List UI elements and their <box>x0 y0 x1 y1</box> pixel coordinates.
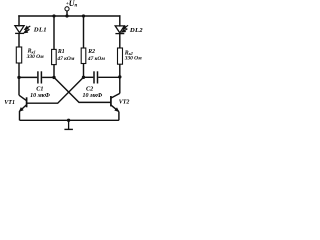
wire +Un terminal lead <box>66 11 68 16</box>
VT2 emitter diagonal <box>111 105 119 111</box>
transistor VT2 <box>111 77 120 120</box>
svg-text:DL1: DL1 <box>33 27 47 34</box>
node R2 on rail <box>82 14 85 17</box>
node C R2/C2 junction <box>82 76 85 79</box>
svg-text:VT2: VT2 <box>119 100 130 106</box>
node B R1/C1 junction <box>52 76 55 79</box>
wire C2 to node D <box>98 76 120 78</box>
wire rail to R1 <box>53 16 55 49</box>
wire DL2 cathode to Rk2 <box>119 34 121 48</box>
transistor VT1 <box>19 77 27 120</box>
wire top rail +U <box>19 15 120 17</box>
wire C1 to node B <box>42 76 54 78</box>
wire DL2 anode from rail <box>119 16 121 26</box>
wire VT1 collector lead <box>18 77 20 95</box>
svg-text:VT1: VT1 <box>4 100 15 106</box>
node +Un junction on rail <box>65 14 68 17</box>
wire node C to C2 <box>84 76 94 78</box>
resistor Rk2 <box>118 48 123 64</box>
resistor R2 <box>81 48 86 64</box>
wire rail to R2 <box>83 16 85 48</box>
wire VT2 emitter lead <box>118 112 120 121</box>
svg-text:10 мкФ: 10 мкФ <box>30 93 50 99</box>
wire Rk2 to node D <box>119 64 121 77</box>
ground <box>64 120 73 129</box>
resistor Rk1 <box>16 47 21 63</box>
wire VT1 emitter lead <box>19 111 21 120</box>
svg-text:R1: R1 <box>57 49 65 55</box>
VT1 base bar <box>26 97 28 107</box>
wire DL1 anode from rail <box>18 16 20 26</box>
wire DL1 cathode to Rk1 <box>18 33 20 47</box>
wire cross-coupling node B to VT2 base <box>54 77 111 102</box>
node R1 on rail <box>52 14 55 17</box>
node A VT1 collector <box>17 76 20 79</box>
node ground junction <box>67 119 70 122</box>
svg-text:DL2: DL2 <box>129 27 143 34</box>
svg-text:C1: C1 <box>36 86 43 93</box>
wire bottom rail <box>20 119 119 121</box>
LED DL2 arrows <box>122 25 128 32</box>
VT1 collector diagonal <box>19 95 26 100</box>
svg-text:330 Ом: 330 Ом <box>26 54 44 60</box>
wire Rk1 to collector node A <box>18 63 20 77</box>
svg-text:C2: C2 <box>86 86 93 93</box>
LED DL1 <box>15 26 24 34</box>
capacitor C2 <box>94 71 98 83</box>
VT1 emitter diagonal <box>20 105 27 111</box>
wire node A to C1 <box>19 76 37 78</box>
wire R1 to node B <box>53 65 55 78</box>
node D VT2 collector <box>118 75 121 78</box>
VT2 base bar <box>110 96 112 106</box>
VT2 emitter arrowhead <box>115 108 118 111</box>
wire R2 to node C <box>83 64 85 78</box>
LED DL1 arrows <box>24 26 30 33</box>
svg-text:47 кОм: 47 кОм <box>56 56 74 62</box>
VT1 emitter arrowhead <box>20 108 23 111</box>
resistor R1 <box>52 49 57 64</box>
wire cross-coupling node C to VT1 base <box>27 77 84 103</box>
terminal +Un <box>65 7 69 11</box>
wire VT2 collector lead <box>119 77 121 93</box>
svg-text:10 мкФ: 10 мкФ <box>83 93 103 99</box>
svg-text:330 Ом: 330 Ом <box>124 56 142 62</box>
VT2 collector diagonal <box>111 93 120 98</box>
LED DL2 <box>115 26 124 34</box>
svg-text:R2: R2 <box>87 49 95 55</box>
svg-text:47 кОм: 47 кОм <box>87 56 105 62</box>
capacitor C1 <box>38 71 42 83</box>
